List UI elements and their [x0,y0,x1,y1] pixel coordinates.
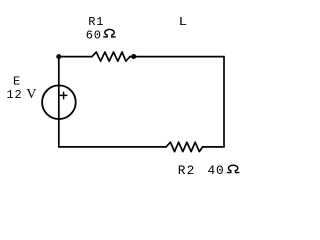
ohm symbol of R1 value [103,29,116,36]
resistor R1 [92,52,130,61]
wire left side (through source E) [58,57,60,147]
node A (junction dot top-left) [56,54,61,59]
plus polarity mark of E [60,94,67,96]
wire top-right segment (R1 to top-right corner) [130,56,224,58]
wire bottom-left segment (R2 to bottom-left corner) [59,146,166,148]
ohm symbol of R2 value [227,165,240,172]
voltage source E (circle) [42,85,76,119]
resistor R2 [166,142,203,151]
svg-text:12: 12 [7,88,23,102]
svg-text:40: 40 [208,163,225,178]
wire bottom-right segment (corner to R2) [203,146,224,148]
wire right side [223,57,225,147]
node B (junction dot right of R1) [131,54,136,59]
svg-text:R2: R2 [178,163,196,178]
wire top-left segment (node A to R1) [59,56,92,58]
svg-text:E: E [13,75,21,89]
svg-text:R1: R1 [88,15,104,29]
svg-text:60: 60 [86,28,102,42]
svg-text:L: L [179,15,188,29]
svg-text:V: V [26,87,36,101]
